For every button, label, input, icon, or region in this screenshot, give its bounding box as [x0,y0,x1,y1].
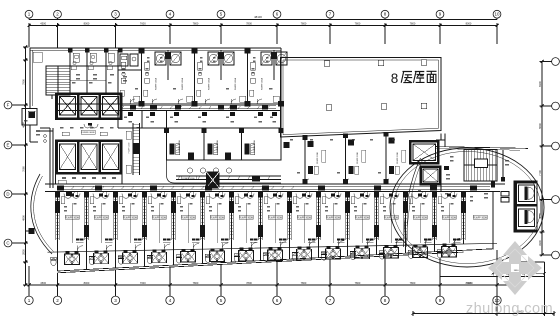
grid circle G right [542,142,559,150]
svg-text:FLWFF-300B: FLWFF-300B [65,217,79,219]
guest room 11 [354,194,374,247]
top grid line [29,15,497,19]
svg-text:FLWFF-300B: FLWFF-300B [181,217,195,219]
grid circle E right [542,196,559,204]
riser duct assembly left-mid [126,123,140,175]
guest room 13 [412,194,432,245]
svg-text:4900: 4900 [21,215,25,221]
tower hall specks [33,52,46,136]
below roof clutter [290,139,395,174]
roof title 8-ceng-wu-mian vector glyphs [391,71,437,86]
svg-text:E: E [7,143,10,148]
roof column 3 [421,60,427,66]
roof slab 8F [281,58,442,138]
roof column 1 [324,61,330,67]
svg-text:FLWFF-200A: FLWFF-200A [253,140,256,152]
machine room right [436,134,450,192]
svg-text:FLWFF-300B: FLWFF-300B [152,217,166,219]
main corridor upper [57,104,281,111]
grid circle 2 bottom [53,287,61,304]
grid circle 10 bottom [493,287,501,304]
svg-text:3300: 3300 [538,240,542,246]
bottom dimension line [28,281,521,288]
grid circle 8 top [381,10,389,19]
elevator bank lower [56,140,123,174]
top grid stubs [29,28,497,48]
stairwell left tower [46,66,70,99]
guest room 2 [93,194,113,252]
facade ellipse outer [390,148,544,267]
grid circle E left [4,141,25,149]
svg-text:7800: 7800 [410,281,416,285]
svg-text:FLWFF-300B: FLWFF-300B [82,132,96,134]
grid circle 1 top [25,10,33,19]
wall-mounted box lower-left [26,228,35,234]
svg-text:D: D [6,192,9,197]
grid circle C right [542,251,559,259]
svg-text:FLWFF-300B: FLWFF-300B [239,217,253,219]
guest room 8 [267,194,287,248]
grid circle 2 top [54,10,62,19]
svg-text:FLWFF-300B: FLWFF-300B [210,217,224,219]
svg-text:5640: 5640 [538,123,542,129]
svg-text:FLWFF-300B: FLWFF-300B [94,217,108,219]
top band rooms [118,48,284,134]
rooms above elevator core [68,48,123,93]
svg-text:8000: 8000 [84,21,90,25]
svg-text:4500: 4500 [40,281,46,285]
service stair top right [464,150,497,182]
svg-text:FLWFF-400A: FLWFF-400A [208,77,211,90]
svg-text:7800: 7800 [355,21,361,25]
svg-text:7800: 7800 [301,21,307,25]
grid circle 6 bottom [273,287,281,304]
svg-text:7800: 7800 [246,21,252,25]
grid circle 7 top [326,10,334,19]
svg-text:4500: 4500 [40,21,46,25]
svg-text:FLWFF-300B: FLWFF-300B [397,152,399,164]
grid circle 7 bottom [326,287,334,304]
guest room closet rects [61,197,453,205]
corridor upper clutter [130,105,268,110]
guest room last [473,215,487,219]
corridor duct upper [120,105,276,110]
svg-text:FLWFF-300B: FLWFF-300B [357,152,359,164]
watermark logo [488,241,542,295]
guest room 1 [64,194,84,252]
top band room interiors [121,62,264,104]
svg-text:FLWFF-300B: FLWFF-300B [317,152,319,164]
right elevator pair [514,181,537,232]
roof column 2 [378,60,384,66]
roof column 5 [381,104,387,110]
bottom-right dimension block [412,262,556,316]
grid circle F left [4,101,25,109]
grid circle 3 bottom [111,287,119,304]
svg-text:C: C [6,241,9,246]
guest room 9 [296,194,316,248]
curved room end wall [404,158,424,247]
guest room 12 [383,194,403,246]
svg-text:7800: 7800 [410,21,416,25]
elevator shaft A top right [410,141,440,165]
svg-text:FLWFF-L200: FLWFF-L200 [129,143,131,153]
grid circle 5 top [217,10,225,19]
grid circle 3 top [112,10,120,19]
svg-text:1850: 1850 [514,270,520,272]
svg-text:FLWFF-400A: FLWFF-400A [181,77,184,90]
left end curved wall [31,174,54,254]
svg-text:FLWFF-300B: FLWFF-300B [473,217,487,219]
svg-text:FLWFF-200A: FLWFF-200A [216,140,219,152]
svg-text:7600: 7600 [140,21,146,25]
svg-text:FLWFF-300B: FLWFF-300B [413,217,427,219]
svg-text:7: 7 [329,298,332,303]
guest room 6 [209,194,229,249]
guest room 4 [151,194,171,251]
guest row dividers [58,181,496,252]
grid circle D left [4,190,25,198]
grid circle H right [542,102,559,110]
svg-text:2850: 2850 [21,249,25,255]
watermark text zhulong.com [466,301,553,317]
top dimension line [28,21,499,28]
meeting room with columns [167,160,282,189]
svg-text:FLWFF-300B: FLWFF-300B [326,217,340,219]
tower top room fixtures [70,61,112,83]
left shaft bump [22,48,38,142]
grid circle 8 bottom [381,287,389,304]
grid circle 10 top [493,10,501,19]
elevator lobby right [484,150,509,202]
svg-text:FLWFF-300B: FLWFF-300B [123,217,137,219]
grid circle 9 top [436,10,444,19]
svg-text:7060: 7060 [21,166,25,172]
svg-text:6300: 6300 [538,81,542,87]
grid circle 5 bottom [217,287,225,304]
svg-text:48100: 48100 [254,15,262,19]
bottom grid stubs [29,250,497,285]
svg-text:FLWFF-300B: FLWFF-300B [297,217,311,219]
facade ellipse inner wall [393,151,540,263]
svg-text:7800: 7800 [301,281,307,285]
ellipse lobby clutter [418,156,473,202]
svg-text:7800: 7800 [355,281,361,285]
lobby furniture [60,127,114,136]
top band room clutter [120,57,279,102]
svg-text:7800: 7800 [193,21,199,25]
svg-text:8000: 8000 [84,281,90,285]
corridor duct lower [57,185,490,196]
svg-text:9130: 9130 [467,282,473,285]
main corridor lower [45,184,505,192]
svg-text:8: 8 [384,298,387,303]
svg-text:zhulong.com: zhulong.com [466,301,553,317]
bathroom band fixtures [51,243,493,272]
svg-text:5: 5 [220,298,223,303]
svg-text:10: 10 [494,12,500,17]
svg-text:FLWFF-400A: FLWFF-400A [261,77,264,90]
middle strip rooms [118,111,277,129]
svg-text:9: 9 [439,298,442,303]
grid circle 6 top [273,10,281,19]
svg-text:FLWFF-300B: FLWFF-300B [442,217,456,219]
roof column 4 [326,105,332,111]
top band AC clusters [155,52,287,65]
svg-text:FLWFF-400A: FLWFF-400A [234,77,237,90]
svg-text:FLWFF-L300: FLWFF-L300 [182,178,195,180]
washroom cluster top-left [118,54,142,82]
mid band rooms [164,128,283,160]
grid circle 4 top [166,10,174,19]
svg-text:7800: 7800 [193,281,199,285]
svg-text:7900: 7900 [21,79,25,85]
guest room 7 [238,194,258,249]
left dimension line [21,46,28,287]
svg-text:8: 8 [391,71,399,86]
svg-text:3: 3 [114,298,117,303]
roof edge flat segment [436,147,528,151]
svg-text:4: 4 [169,298,172,303]
svg-text:FLWFF-200A: FLWFF-200A [178,140,181,152]
svg-text:FLWFF-400A: FLWFF-400A [155,77,158,90]
divider shaft ducts [55,192,466,240]
riser pipes left [40,128,53,188]
svg-text:7700: 7700 [538,170,542,176]
svg-text:6: 6 [276,298,279,303]
svg-text:2: 2 [56,298,59,303]
elevator bank upper [56,93,123,120]
svg-text:1: 1 [28,298,31,303]
guest room 14 [441,194,461,245]
roof column 6 [421,103,427,109]
mid strip clutter [124,117,273,118]
grid circle C left [4,239,25,247]
svg-text:FLWFF-300B: FLWFF-300B [355,217,369,219]
rooms below roof [284,132,406,184]
guest room 3 [122,194,142,251]
left exterior wall [31,50,33,106]
guest room 10 [325,194,345,247]
grid circle 1 bottom [25,287,33,304]
elevator lobby with fan coil [81,123,98,134]
right dimension line [538,60,545,257]
guest room 5 [180,194,200,250]
building top exterior wall [30,48,281,50]
grid circle 9 bottom [436,287,444,304]
svg-text:F: F [7,103,10,108]
grid circle 4 bottom [166,287,174,304]
svg-text:7800: 7800 [246,281,252,285]
service band below elevators [56,174,123,184]
elevator shaft B top right [420,166,441,185]
svg-text:FLWFF-300B: FLWFF-300B [268,217,282,219]
guest room entry doors [73,192,455,197]
svg-text:7600: 7600 [140,281,146,285]
guest row bathroom top wall [48,243,498,252]
grid circle J right [542,58,559,66]
svg-text:8000: 8000 [466,21,472,25]
